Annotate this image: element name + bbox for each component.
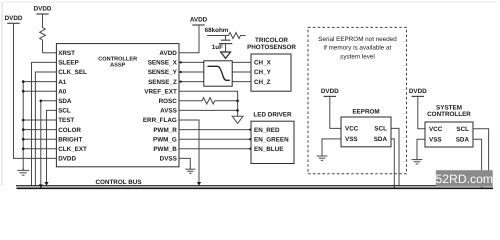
svg-text:SENSE_Z: SENSE_Z bbox=[148, 79, 177, 86]
wire A1 to ground rail bbox=[23, 81, 56, 83]
junction AVSS bbox=[236, 109, 239, 112]
junction EN_GREEN pin bbox=[249, 138, 251, 140]
filter response curve bbox=[208, 66, 230, 80]
power AVDD bbox=[192, 24, 204, 26]
wire DVSS to ground bbox=[179, 158, 190, 168]
svg-text:PWM_B: PWM_B bbox=[153, 146, 177, 153]
svg-text:ROSC: ROSC bbox=[159, 98, 178, 105]
svg-text:CH_X: CH_X bbox=[254, 60, 272, 67]
wire PWM_R to EN_RED bbox=[179, 129, 251, 131]
wire SENSE_Z to CH_Z bbox=[179, 81, 251, 83]
svg-text:SDA: SDA bbox=[58, 98, 72, 105]
svg-text:EEPROM: EEPROM bbox=[352, 108, 379, 115]
svg-text:Serial EEPROM not needed: Serial EEPROM not needed bbox=[318, 36, 397, 43]
svg-text:68kohm: 68kohm bbox=[205, 27, 229, 34]
ground symbol (system) bbox=[416, 158, 418, 160]
svg-text:SDA: SDA bbox=[374, 136, 388, 143]
svg-text:PHOTOSENSOR: PHOTOSENSOR bbox=[247, 44, 296, 51]
wire SLEEP to control bus bbox=[32, 62, 57, 185]
ground arrow (1uF) bbox=[221, 52, 231, 58]
svg-text:SDA: SDA bbox=[456, 136, 470, 143]
wire SCL to control bus bbox=[47, 110, 57, 185]
EEPROM U4 bbox=[341, 117, 391, 147]
junction A1/ground rail bbox=[22, 80, 25, 83]
ground symbol (left rail) bbox=[22, 168, 24, 170]
arrow SCL to bus bbox=[44, 182, 48, 186]
svg-text:EN_GREEN: EN_GREEN bbox=[254, 136, 289, 143]
system controller U5 bbox=[425, 122, 473, 147]
svg-text:SENSE_X: SENSE_X bbox=[148, 60, 178, 67]
wire SENSE_X to CH_X bbox=[179, 61, 251, 63]
optional EEPROM dashed box bbox=[308, 27, 407, 173]
svg-text:system level: system level bbox=[340, 53, 375, 60]
ground arrow (analog) bbox=[232, 116, 243, 123]
wire system SCL to bus bbox=[473, 129, 489, 186]
power DVDD (EEPROM) bbox=[324, 95, 336, 97]
svg-text:SCL: SCL bbox=[456, 126, 469, 133]
wire PWM_B to EN_BLUE bbox=[179, 148, 251, 150]
wire system VSS to ground bbox=[417, 139, 425, 159]
junction A0/ground rail bbox=[22, 90, 25, 93]
ground rail (left) bbox=[22, 82, 24, 170]
wire AVSS bbox=[179, 109, 238, 111]
power DVDD (left rail) bbox=[7, 22, 19, 24]
svg-text:PWM_G: PWM_G bbox=[153, 136, 177, 143]
svg-text:AVSS: AVSS bbox=[160, 108, 177, 115]
filter block (photosensor front-end) bbox=[204, 61, 232, 86]
svg-text:VSS: VSS bbox=[429, 136, 442, 143]
wire BRIGHT to ground rail bbox=[23, 138, 56, 140]
svg-text:COLOR: COLOR bbox=[58, 127, 81, 134]
wire EEPROM VSS to ground bbox=[322, 139, 341, 156]
svg-text:CONTROLLER: CONTROLLER bbox=[427, 111, 471, 118]
svg-text:if memory is available at: if memory is available at bbox=[324, 45, 392, 52]
wire CLK_EXT to ground rail bbox=[23, 148, 56, 150]
wire SENSE_Y to CH_Y bbox=[179, 71, 251, 73]
ground symbol (DVSS) bbox=[189, 168, 191, 170]
svg-text:ASSP: ASSP bbox=[110, 62, 126, 68]
svg-text:52RD.com: 52RD.com bbox=[436, 172, 494, 186]
wire ERR_FLAG to control bus bbox=[179, 120, 199, 185]
svg-text:DVDD: DVDD bbox=[58, 156, 76, 163]
svg-text:DVDD: DVDD bbox=[321, 88, 339, 95]
svg-text:SCL: SCL bbox=[58, 108, 71, 115]
svg-text:A1: A1 bbox=[58, 79, 67, 86]
junction BRIGHT/ground rail bbox=[22, 138, 25, 141]
svg-text:SCL: SCL bbox=[374, 126, 387, 133]
resistor ROSC bbox=[179, 98, 238, 104]
wire TEST to ground rail bbox=[23, 119, 56, 121]
svg-text:CLK_EXT: CLK_EXT bbox=[58, 146, 87, 153]
ground symbol (EEPROM) bbox=[321, 154, 323, 156]
wire system SDA to bus bbox=[473, 139, 482, 188]
svg-text:VREF_EXT: VREF_EXT bbox=[144, 88, 177, 95]
wire DVDD rail to DVDD pin bbox=[14, 23, 57, 158]
wire CLK_SEL to control bus bbox=[35, 72, 56, 186]
junction EN_BLUE pin bbox=[249, 148, 251, 150]
svg-text:VCC: VCC bbox=[345, 126, 359, 133]
svg-text:DVDD: DVDD bbox=[34, 6, 52, 13]
resistor pull-up on XRST bbox=[40, 14, 46, 53]
svg-text:BRIGHT: BRIGHT bbox=[58, 136, 82, 143]
junction SENSE_X bbox=[180, 61, 182, 63]
junction TEST/ground rail bbox=[22, 119, 25, 122]
junction EN_RED pin bbox=[249, 128, 251, 130]
tricolor photosensor U2 bbox=[251, 54, 291, 91]
junction SENSE_Z bbox=[180, 80, 182, 82]
watermark 52RD.com bbox=[436, 170, 493, 187]
svg-text:AVDD: AVDD bbox=[159, 50, 177, 57]
junction SENSE_Y bbox=[180, 71, 182, 73]
svg-text:CH_Y: CH_Y bbox=[254, 69, 272, 76]
wire SDA to control bus bbox=[41, 101, 57, 188]
svg-text:SENSE_Y: SENSE_Y bbox=[148, 69, 178, 76]
junction ROSC bbox=[236, 100, 239, 103]
wire pull-up to XRST bbox=[43, 52, 57, 54]
svg-text:CLK_SEL: CLK_SEL bbox=[58, 69, 87, 76]
svg-text:CONTROL BUS: CONTROL BUS bbox=[95, 179, 141, 186]
svg-text:EN_RED: EN_RED bbox=[254, 127, 280, 134]
svg-text:TEST: TEST bbox=[58, 117, 74, 124]
svg-text:1uF: 1uF bbox=[212, 44, 223, 51]
LED driver U3 bbox=[251, 121, 294, 163]
wire DVDD to EEPROM VCC bbox=[330, 96, 341, 128]
svg-text:SLEEP: SLEEP bbox=[58, 60, 79, 67]
svg-text:ERR_FLAG: ERR_FLAG bbox=[143, 117, 177, 124]
svg-text:EN_BLUE: EN_BLUE bbox=[254, 146, 283, 153]
control bus line 1 bbox=[16, 185, 493, 187]
junction COLOR/ground rail bbox=[22, 128, 25, 131]
svg-text:PWM_R: PWM_R bbox=[153, 127, 177, 134]
capacitor 1uF bbox=[225, 36, 227, 41]
controller ASSP U1 bbox=[56, 44, 179, 167]
svg-text:DVSS: DVSS bbox=[160, 156, 177, 163]
svg-text:VSS: VSS bbox=[345, 136, 358, 143]
control bus line 2 bbox=[17, 187, 494, 189]
svg-text:LED DRIVER: LED DRIVER bbox=[253, 111, 292, 118]
wire A0 to ground rail bbox=[23, 90, 56, 92]
svg-text:A0: A0 bbox=[58, 88, 67, 95]
wire COLOR to ground rail bbox=[23, 129, 56, 131]
svg-text:XRST: XRST bbox=[58, 50, 75, 57]
arrow SDA to bus bbox=[39, 184, 43, 188]
svg-text:AVDD: AVDD bbox=[190, 17, 208, 24]
svg-text:DVDD: DVDD bbox=[5, 15, 23, 22]
wire PWM_G to EN_GREEN bbox=[179, 138, 251, 140]
power DVDD (XRST pull-up) bbox=[36, 13, 48, 15]
junction SDA bbox=[40, 100, 43, 103]
power DVDD (system controller) bbox=[412, 95, 424, 97]
wire EEPROM SDA to bus bbox=[391, 139, 394, 188]
svg-text:DVDD: DVDD bbox=[409, 88, 427, 95]
wire EEPROM SCL to bus bbox=[391, 128, 399, 185]
wire DVDD to system VCC bbox=[418, 96, 425, 128]
svg-text:VCC: VCC bbox=[429, 126, 443, 133]
junction CLK_EXT/ground rail bbox=[22, 148, 25, 151]
svg-text:CH_Z: CH_Z bbox=[254, 79, 271, 86]
wire AVDD to pin bbox=[179, 25, 199, 53]
arrow ERR_FLAG to bus bbox=[197, 182, 201, 186]
wire VREF_EXT bbox=[179, 91, 238, 116]
